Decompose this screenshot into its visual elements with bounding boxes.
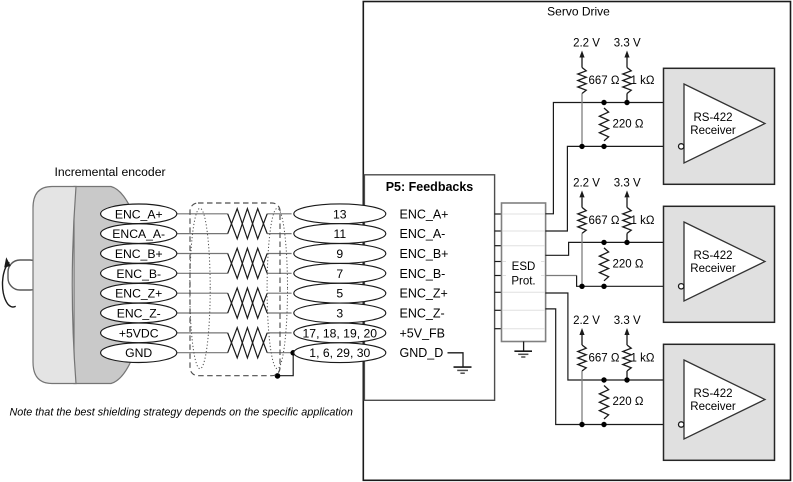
svg-text:7: 7 <box>336 267 343 281</box>
svg-text:GND: GND <box>125 346 152 360</box>
wire: P5 to ESD stub 8 <box>495 328 502 330</box>
node ENC_B+ (encoder pin oval) <box>101 244 177 264</box>
wire: 667 ohm lead to -in (receiver 2) <box>581 233 583 286</box>
twisted pair symbol (B) <box>228 248 268 278</box>
pin 11 (connector pin oval) <box>294 224 386 244</box>
node ENC_Z- (encoder pin oval) <box>101 303 177 323</box>
node ENC_B- (encoder pin oval) <box>101 264 177 284</box>
wire: P5 to ESD stub 6 <box>495 291 502 293</box>
wire: row 3 left segment <box>177 253 228 255</box>
resistor 1 kohm (receiver 1) <box>623 68 655 94</box>
junction: 220 top (receiver 3) <box>601 377 606 382</box>
node +5VDC (encoder pin oval) <box>101 323 177 343</box>
junction: 1k / +in (receiver 3) <box>624 377 629 382</box>
pin 9 (connector pin oval) <box>294 244 386 264</box>
svg-text:2.2 V: 2.2 V <box>573 315 600 327</box>
receiver 3 block (gray) <box>664 344 775 460</box>
svg-text:220 Ω: 220 Ω <box>613 119 644 131</box>
wire: 1 kohm lead to +in (receiver 3) <box>626 371 628 380</box>
wire: row 3 right segment <box>267 253 291 255</box>
pin 7 (connector pin oval) <box>294 263 386 283</box>
wire: ESD to ground <box>523 342 525 352</box>
svg-text:3.3 V: 3.3 V <box>614 177 641 189</box>
svg-text:ENC_A-: ENC_A- <box>400 227 446 241</box>
wire: P5 to ESD stub 5 <box>495 275 502 277</box>
wire: 1 kohm lead to +in (receiver 2) <box>626 233 628 242</box>
ground (digital, GND_D) <box>454 367 472 373</box>
wire: ENC_B- to receiver 2 -in <box>577 276 679 287</box>
resistor 220 ohm (receiver 2) <box>599 248 643 281</box>
svg-text:Receiver: Receiver <box>690 125 736 137</box>
svg-text:Receiver: Receiver <box>690 263 736 275</box>
svg-text:9: 9 <box>336 247 343 261</box>
svg-text:3.3 V: 3.3 V <box>614 38 641 50</box>
wire: row 2 left segment <box>177 233 228 235</box>
encoder body (rear cylinder) <box>74 187 144 384</box>
wire: ENC_A- to receiver 1 -in <box>545 146 678 231</box>
junction on GND wire <box>290 350 296 356</box>
svg-text:RS-422: RS-422 <box>694 112 733 124</box>
wire: ENC_B+ to receiver 2 +in <box>545 242 684 255</box>
wire: ENC_A+ to receiver 1 +in <box>545 103 684 214</box>
wire: row 4 left segment <box>177 272 228 274</box>
svg-text:Servo Drive: Servo Drive <box>547 5 610 19</box>
junction: 220 bottom (receiver 3) <box>601 422 606 427</box>
wire: row 6 left segment <box>177 312 228 314</box>
wire: row 1 right segment <box>267 213 291 215</box>
ESD internal divider 6 <box>502 291 545 293</box>
inverting input circle U1 <box>679 144 684 149</box>
power 3.3 V (receiver 2) <box>614 177 641 207</box>
svg-text:Incremental encoder: Incremental encoder <box>54 165 165 179</box>
wire: row 5 right segment <box>267 292 291 294</box>
node ENC_A+ (encoder pin oval) <box>101 204 177 224</box>
svg-text:1 kΩ: 1 kΩ <box>631 215 655 227</box>
svg-text:220 Ω: 220 Ω <box>613 258 644 270</box>
pin 13 (connector pin oval) <box>294 204 386 224</box>
ESD internal divider 8 <box>502 328 545 330</box>
twisted pair symbol (5V/GND) <box>228 328 268 358</box>
ESD internal divider 5 <box>502 275 545 277</box>
power 2.2 V (receiver 1) <box>573 38 600 68</box>
servo drive enclosure box <box>363 2 790 481</box>
wire: 667 ohm lead to -in (receiver 3) <box>581 371 583 425</box>
resistor 1 kohm (receiver 2) <box>623 207 655 233</box>
power 2.2 V (receiver 3) <box>573 315 600 345</box>
wire: row 5 left segment <box>177 292 228 294</box>
junction: 667 / -in (receiver 3) <box>579 422 584 427</box>
op-amp U3 RS-422 receiver <box>684 360 765 439</box>
wire: P5 to ESD stub 1 <box>495 213 502 215</box>
svg-text:P5: Feedbacks: P5: Feedbacks <box>386 180 474 194</box>
cable shield outline (dashed) <box>190 203 280 376</box>
power 3.3 V (receiver 3) <box>614 315 641 345</box>
junction: 220 bottom (receiver 1) <box>601 144 606 149</box>
pin 5 (connector pin oval) <box>294 283 386 303</box>
twisted pair symbol (A) <box>228 209 268 239</box>
ESD internal divider 7 <box>502 309 545 311</box>
svg-text:ENC_B-: ENC_B- <box>116 267 161 281</box>
svg-text:ENCA_A-: ENCA_A- <box>112 227 165 241</box>
power 3.3 V (receiver 1) <box>614 38 641 68</box>
svg-text:1 kΩ: 1 kΩ <box>631 353 655 365</box>
wire: row 8 right segment <box>267 352 291 354</box>
receiver 1 block (gray) <box>664 68 775 184</box>
encoder shaft <box>8 260 42 290</box>
wire: P5 to ESD stub 2 <box>495 230 502 232</box>
svg-text:Note that the best shielding s: Note that the best shielding strategy de… <box>10 407 353 419</box>
svg-text:GND_D: GND_D <box>400 346 444 360</box>
wire: ENC_B- to receiver 2 -in (stub) <box>545 275 576 277</box>
rotation arrow <box>3 257 16 307</box>
svg-text:3.3 V: 3.3 V <box>614 315 641 327</box>
node GND (encoder pin oval) <box>101 343 177 363</box>
svg-text:17, 18, 19, 20: 17, 18, 19, 20 <box>303 326 378 340</box>
resistor 220 ohm (receiver 3) <box>599 386 643 420</box>
svg-text:3: 3 <box>336 307 343 321</box>
wire: row 2 right segment <box>267 233 291 235</box>
pin 17, 18, 19, 20 (connector pin oval) <box>294 323 386 343</box>
wire: row 4 right segment <box>267 272 291 274</box>
svg-text:ENC_Z+: ENC_Z+ <box>400 287 448 301</box>
svg-text:ENC_A+: ENC_A+ <box>400 207 449 221</box>
junction: 220 bottom (receiver 2) <box>601 284 606 289</box>
svg-text:5: 5 <box>336 287 343 301</box>
wire: row 7 right segment <box>267 332 291 334</box>
wire: shield to GND <box>278 353 294 376</box>
receiver 2 block (gray) <box>664 206 775 322</box>
cable opening ellipse (left) <box>190 208 210 368</box>
ground (ESD box) <box>514 351 532 357</box>
svg-text:ENC_B+: ENC_B+ <box>115 247 163 261</box>
svg-text:2.2 V: 2.2 V <box>573 38 600 50</box>
svg-text:ENC_A+: ENC_A+ <box>115 207 163 221</box>
ESD internal divider 2 <box>502 230 545 232</box>
resistor 667 ohm (receiver 2) <box>578 207 620 233</box>
svg-text:ENC_Z-: ENC_Z- <box>400 307 445 321</box>
junction: 667 / -in (receiver 2) <box>579 284 584 289</box>
svg-text:1, 6, 29, 30: 1, 6, 29, 30 <box>309 346 370 360</box>
junction: 1k / +in (receiver 1) <box>624 100 629 105</box>
op-amp U2 RS-422 receiver <box>684 222 765 301</box>
op-amp U1 RS-422 receiver <box>684 84 765 163</box>
svg-text:ENC_B+: ENC_B+ <box>400 247 449 261</box>
cable opening ellipse (right) <box>267 208 287 368</box>
junction: 220 top (receiver 2) <box>601 240 606 245</box>
junction on shield <box>275 373 281 379</box>
inverting input circle U2 <box>679 284 684 289</box>
resistor 220 ohm (receiver 1) <box>599 108 643 141</box>
junction: 220 top (receiver 1) <box>601 100 606 105</box>
wire: P5 to ESD stub 7 <box>495 309 502 311</box>
svg-text:RS-422: RS-422 <box>694 388 733 400</box>
svg-text:Prot.: Prot. <box>511 276 535 288</box>
connector box P5: Feedbacks <box>364 175 494 400</box>
svg-text:13: 13 <box>333 207 347 221</box>
encoder body (front cap) <box>33 187 76 384</box>
wire: P5 to ESD stub 3 <box>495 245 502 247</box>
wire: GND_D to ground <box>448 353 464 367</box>
wire: row 8 left segment <box>177 352 228 354</box>
junction: 1k / +in (receiver 2) <box>624 240 629 245</box>
power 2.2 V (receiver 2) <box>573 177 600 207</box>
svg-text:667 Ω: 667 Ω <box>589 75 620 87</box>
node ENC_Z+ (encoder pin oval) <box>101 283 177 303</box>
inverting input circle U3 <box>679 422 684 427</box>
resistor 1 kohm (receiver 3) <box>623 345 655 371</box>
resistor 667 ohm (receiver 1) <box>578 68 620 94</box>
wire: P5 to ESD stub 4 <box>495 261 502 263</box>
svg-text:667 Ω: 667 Ω <box>589 215 620 227</box>
ESD internal divider 4 <box>502 261 545 263</box>
ESD internal divider 3 <box>502 245 545 247</box>
wire: row 7 left segment <box>177 332 228 334</box>
wire: 667 ohm lead to -in (receiver 1) <box>581 94 583 147</box>
wire: row 6 right segment <box>267 312 291 314</box>
wire: ENC_Z- to receiver 3 -in <box>545 309 678 425</box>
svg-text:11: 11 <box>333 227 346 241</box>
svg-text:+5V_FB: +5V_FB <box>400 326 446 340</box>
junction: 667 / -in (receiver 1) <box>579 144 584 149</box>
svg-text:667 Ω: 667 Ω <box>589 353 620 365</box>
wire: ENC_Z+ to receiver 3 +in <box>545 293 684 380</box>
node ENCA_A- (encoder pin oval) <box>101 224 177 244</box>
wire: 1 kohm lead to +in (receiver 1) <box>626 94 628 103</box>
resistor 667 ohm (receiver 3) <box>578 345 620 371</box>
svg-text:RS-422: RS-422 <box>694 250 733 262</box>
svg-text:220 Ω: 220 Ω <box>613 396 644 408</box>
svg-text:Receiver: Receiver <box>690 401 736 413</box>
twisted pair symbol (Z) <box>228 288 268 318</box>
svg-text:+5VDC: +5VDC <box>119 326 159 340</box>
pin 1, 6, 29, 30 (connector pin oval) <box>294 343 386 363</box>
svg-text:ENC_Z-: ENC_Z- <box>117 307 161 321</box>
svg-text:2.2 V: 2.2 V <box>573 177 600 189</box>
ESD internal divider 1 <box>502 213 545 215</box>
wire: row 1 left segment <box>177 213 228 215</box>
ESD protection box U-ESD <box>502 203 546 342</box>
svg-text:ENC_B-: ENC_B- <box>400 267 446 281</box>
svg-text:ESD: ESD <box>512 261 536 273</box>
svg-text:1 kΩ: 1 kΩ <box>631 75 655 87</box>
svg-text:ENC_Z+: ENC_Z+ <box>115 287 162 301</box>
pin 3 (connector pin oval) <box>294 303 386 323</box>
